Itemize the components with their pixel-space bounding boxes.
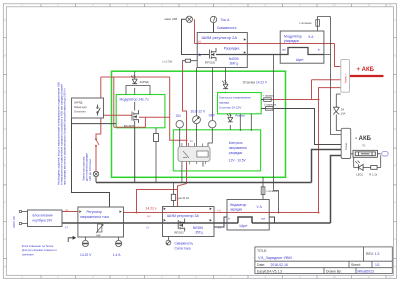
svg-text:Модулятор 14с.7з: Модулятор 14с.7з <box>120 97 149 101</box>
wire mains connector to PSU <box>22 212 28 224</box>
connector 220V plug pins <box>19 210 21 224</box>
svg-text:(-): (-) <box>65 225 68 229</box>
wire +24V top rail (red) from lamp to +AKB terminal <box>195 19 341 66</box>
svg-text:R 1.2k: R 1.2k <box>369 173 377 177</box>
svg-text:REV: 1.3: REV: 1.3 <box>366 252 380 256</box>
svg-text:IRF3205: IRF3205 <box>174 232 184 235</box>
wire PWM2A internal line <box>197 54 209 56</box>
svg-text:Регулятор: Регулятор <box>87 210 103 214</box>
svg-text:14.22 V: 14.22 V <box>80 253 92 257</box>
svg-text:(+): (+) <box>198 39 202 43</box>
svg-text:Drawn By:: Drawn By: <box>326 269 342 273</box>
button OFF <box>209 121 216 128</box>
block discharge modulator box U3 <box>280 31 324 63</box>
wire ammeter to PWM2A top <box>213 23 215 33</box>
svg-text:АКБ до 10.5 вольт: АКБ до 10.5 вольт <box>88 158 92 181</box>
note vertical comment left <box>56 82 66 185</box>
block charge indicator <box>227 200 269 231</box>
svg-text:NE555: NE555 <box>193 226 203 230</box>
svg-text:при зарядке кислотных аккумуля: при зарядке кислотных аккумуляторных бат… <box>62 88 66 185</box>
fuse F1 (k pitaniyu) <box>316 20 320 27</box>
transistor Q2 IRF3205 in PWM2A <box>210 48 217 61</box>
wire indicator in/out connections <box>214 217 275 227</box>
resistor R3 1.2k <box>371 166 377 170</box>
svg-text:out: out <box>261 216 265 220</box>
wire lamp2 to negative load rail <box>95 177 97 183</box>
svg-text:(-) зарядка: (-) зарядка <box>264 103 277 106</box>
svg-text:A: A <box>4 18 6 22</box>
svg-text:LED1: LED1 <box>356 173 363 177</box>
svg-text:ламп 24В: ламп 24В <box>164 17 177 21</box>
switch SA1 inside control box <box>97 105 101 116</box>
svg-text:D: D <box>4 127 6 131</box>
voltmeter PV1 <box>193 116 201 124</box>
svg-text:3МГц: 3МГц <box>230 61 238 65</box>
svg-text:+ зарядка: + зарядка <box>263 95 275 98</box>
svg-text:Заряд идет: Заряд идет <box>74 106 88 109</box>
wire zener to charge control box <box>225 68 227 93</box>
svg-text:5 А: 5 А <box>309 35 315 39</box>
svg-text:ноутбука 19V: ноутбука 19V <box>33 219 54 223</box>
svg-text:Ток А: Ток А <box>221 18 230 22</box>
svg-text:D4: D4 <box>341 107 345 111</box>
wire +AKB thick output (red) <box>350 75 384 77</box>
svg-text:Разрядка: Разрядка <box>224 47 240 51</box>
svg-text:H: H <box>394 265 396 269</box>
block regulator voltage-current <box>78 207 124 237</box>
block outline: charge voltage control section (green) <box>218 93 262 114</box>
svg-text:(-): (-) <box>198 53 201 57</box>
transistor Q1 IRF4905 <box>132 110 139 128</box>
block outline: discharge voltage control section (green) <box>173 130 260 171</box>
diode D4 <box>333 107 339 114</box>
lamp LA1 24V <box>186 16 192 22</box>
terminal block -AKB <box>341 128 351 158</box>
svg-text:ШИМ регулятор 3А: ШИМ регулятор 3А <box>167 214 200 218</box>
svg-text:Модулятор: Модулятор <box>284 34 302 38</box>
wire potentiometer stems <box>85 237 168 241</box>
svg-text:Индикатор: Индикатор <box>230 203 247 207</box>
label arrows PWM3A <box>164 208 212 222</box>
svg-text:Сила тока: Сила тока <box>175 246 191 250</box>
note vertical lamp load <box>82 153 92 181</box>
wire resistor 1k170 to PWM2A lower pin <box>182 60 197 62</box>
block PWM regulator 2A box U2 <box>197 33 247 68</box>
svg-text:10.8-12 V: 10.8-12 V <box>191 109 206 113</box>
potentiometer inside regulator (adj) <box>96 224 103 233</box>
svg-text:IRF3205: IRF3205 <box>205 61 216 65</box>
svg-text:зарядки: зарядки <box>230 208 242 212</box>
svg-text:14.22 V: 14.22 V <box>256 80 268 84</box>
net flag at shunt output <box>382 151 388 156</box>
switch SA2 discharge <box>95 139 99 147</box>
svg-text:Клем -: Клем - <box>344 141 348 150</box>
svg-text:in: in <box>318 47 321 51</box>
block PSU notebook 19V <box>28 210 63 227</box>
svg-text:разрядки: разрядки <box>284 39 299 43</box>
svg-text:2016-02-16: 2016-02-16 <box>271 263 288 267</box>
wire charge switch net (red) <box>96 77 101 171</box>
svg-text:B: B <box>394 54 396 58</box>
fuse F- charge clamp <box>266 107 274 111</box>
svg-text:Шунт: Шунт <box>240 224 248 228</box>
wire PWM3A red feed loop (red) <box>137 190 178 213</box>
wire modulator out down to indicator supply <box>274 55 279 213</box>
svg-text:напряжения и тока: напряжения и тока <box>80 215 109 219</box>
svg-text:ЗАРЯД: ЗАРЯД <box>74 101 83 104</box>
svg-text:(-): (-) <box>218 225 221 229</box>
button ON <box>176 121 183 128</box>
svg-text:12V - 10.5V: 12V - 10.5V <box>229 158 247 162</box>
svg-text:Отсечка 14.22V: Отсечка 14.22V <box>219 105 242 109</box>
svg-text:G: G <box>4 237 6 241</box>
svg-text:Скважность: Скважность <box>217 26 237 30</box>
wire lamp1 to PWM2A input <box>182 19 198 54</box>
terminal block +AKB <box>341 59 350 92</box>
resistor R2 gate <box>171 194 175 200</box>
svg-text:(+): (+) <box>147 214 151 218</box>
potentiometer P3 duty cycle <box>166 240 171 245</box>
svg-text:B: B <box>4 54 6 58</box>
svg-text:заряда: заряда <box>219 101 229 105</box>
svg-text:(+): (+) <box>65 208 69 212</box>
wire charge control box bottom stubs <box>240 114 251 131</box>
svg-text:1 к 170Ω: 1 к 170Ω <box>162 61 172 64</box>
wire control box to regulator input <box>72 118 117 207</box>
resistor Rlim 1k 170 <box>185 59 190 62</box>
resistor R1 <box>154 134 159 142</box>
LED charge indicator above modulator <box>131 75 137 84</box>
potentiometer P1 voltage set <box>82 240 88 246</box>
svg-text:E: E <box>394 164 396 168</box>
svg-text:Mihail2023: Mihail2023 <box>358 269 375 273</box>
svg-text:Блок питания: Блок питания <box>33 213 53 217</box>
wire shunt measuring loop at -AKB <box>351 154 381 168</box>
svg-text:Режим: Режим <box>235 114 244 118</box>
svg-text:Шунт: Шунт <box>296 58 304 62</box>
svg-text:IRF4905: IRF4905 <box>124 124 135 128</box>
svg-text:Контроль напряжения: Контроль напряжения <box>219 96 251 100</box>
svg-text:Блок повышает не более: Блок повышает не более <box>22 244 54 248</box>
ammeter PA1 <box>210 16 216 22</box>
svg-text:G: G <box>394 237 396 241</box>
svg-text:E: E <box>4 164 6 168</box>
svg-text:к питанию: к питанию <box>299 22 311 25</box>
block control box (charge on/off) <box>72 98 104 118</box>
wire diode D4 branch <box>336 94 341 131</box>
block charge modulator box (white inner) <box>134 102 136 111</box>
block outline: charge modulator section (green) <box>116 95 165 128</box>
svg-text:Контроль: Контроль <box>229 141 243 145</box>
svg-text:Отсечка: Отсечка <box>243 80 255 84</box>
svg-text:напряжения: напряжения <box>229 146 247 150</box>
shunt step inside modulator <box>280 48 324 55</box>
wire resistor R1 chain to load rail <box>155 128 157 182</box>
wire voltmeter up to PWM2A bottom <box>196 68 198 116</box>
wire PWM2A output to discharge modulator (thick) <box>216 54 280 56</box>
svg-text:(+): (+) <box>217 209 221 213</box>
potentiometer P2 current set <box>116 240 122 246</box>
svg-text:EasyEDA V5.1.3: EasyEDA V5.1.3 <box>257 269 282 273</box>
svg-text:TITLE:: TITLE: <box>257 249 267 253</box>
title block <box>255 247 392 274</box>
zener diode cutoff 14.22V <box>222 80 228 88</box>
wire negative load rail (thick) <box>96 150 341 183</box>
wire buttons to relay K1 <box>180 124 213 147</box>
svg-text:V А: V А <box>257 205 263 209</box>
wire charge clamp fuse to -AKB <box>261 100 341 145</box>
wire resistor R2 chain to PWM3A <box>173 183 175 207</box>
LED LED1 <box>355 161 363 171</box>
svg-text:- АКБ: - АКБ <box>355 136 372 142</box>
svg-text:14.22 v: 14.22 v <box>146 207 157 211</box>
wire relay contacts down <box>182 162 203 183</box>
block outline: main charger unit (green) <box>112 71 286 177</box>
wire OFF button up to PWM2A transistor <box>212 68 214 121</box>
LED mode (Rezhim) <box>227 114 233 122</box>
wire main negative rail (thick) <box>62 156 341 224</box>
svg-text:див 40 1Ω: див 40 1Ω <box>178 197 190 200</box>
wire FET IRF4905 drain down to load rail <box>134 128 136 182</box>
wire fuse F1 feed over modulator <box>318 17 342 135</box>
svg-text:A: A <box>394 18 396 22</box>
svg-text:адж: адж <box>96 235 101 237</box>
wire charge FET loop (red) around modulator block <box>101 77 187 140</box>
svg-text:Date:: Date: <box>257 263 265 267</box>
transistor Q3 IRF3205 in PWM3A <box>178 219 185 232</box>
svg-text:разрядки: разрядки <box>229 151 243 155</box>
svg-text:Скважность: Скважность <box>175 241 194 245</box>
wire gate drive net (red) from limiter resistor down to relay and PWM3A <box>178 61 187 207</box>
wire fuse F3 to indicator <box>262 177 264 200</box>
svg-text:1.4 А: 1.4 А <box>113 253 121 257</box>
label arrows regulator <box>79 210 121 213</box>
svg-text:свечения: свечения <box>22 253 34 256</box>
lamp LA2 load <box>93 171 98 176</box>
svg-text:C: C <box>394 90 396 94</box>
svg-text:V.5_Зарядное УВМ: V.5_Зарядное УВМ <box>258 256 292 260</box>
svg-text:C: C <box>4 90 6 94</box>
svg-text:к питанию: к питанию <box>267 190 278 193</box>
svg-text:(-): (-) <box>147 225 150 229</box>
svg-text:Для регулировки плавности: Для регулировки плавности <box>22 248 57 252</box>
svg-text:D: D <box>394 127 396 131</box>
svg-text:out: out <box>282 47 286 51</box>
svg-text:Отключен: Отключен <box>74 110 86 113</box>
wire mode LED chain <box>229 114 231 130</box>
svg-text:Sheet:: Sheet: <box>351 263 361 267</box>
svg-text:1/1: 1/1 <box>375 263 380 267</box>
callout arrow to potentiometers <box>68 236 76 242</box>
svg-text:Клем +: Клем + <box>343 73 347 83</box>
svg-text:in: in <box>228 216 231 220</box>
svg-text:OFF: OFF <box>209 113 215 117</box>
svg-text:220V AC: 220V AC <box>12 215 16 228</box>
svg-text:ON: ON <box>176 114 181 118</box>
svg-text:35Гц: 35Гц <box>195 231 202 235</box>
block PWM regulator 3A <box>163 207 215 237</box>
label arrows PWM2A <box>199 38 246 56</box>
title block texts <box>257 249 380 273</box>
shunt resistor at -AKB <box>353 150 378 157</box>
svg-text:H: H <box>4 265 6 269</box>
wire +supply bottom rail (red) <box>62 80 341 213</box>
svg-text:+ АКБ: + АКБ <box>357 67 375 73</box>
svg-text:ШИМ регулятор 2А: ШИМ регулятор 2А <box>202 35 238 40</box>
relay K1 <box>178 143 210 165</box>
junction dots on red rail <box>136 99 320 214</box>
fuse F3 k pitaniyu <box>261 187 265 195</box>
wire LED charge chain <box>126 71 150 94</box>
fuse F+ charge clamp <box>264 98 272 102</box>
svg-text:10А: 10А <box>341 112 346 116</box>
svg-text:ЗАРЯД: ЗАРЯД <box>140 80 149 84</box>
